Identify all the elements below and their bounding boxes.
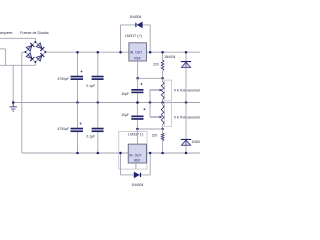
diode D8 1N4004 (negative output clamp) <box>181 139 191 140</box>
capacitor C2 0.1uF (positive side) <box>97 52 99 75</box>
wire positive rail <box>45 51 200 53</box>
wire protection loop bottom (LM337) <box>121 174 151 176</box>
wire bridge diamond <box>25 42 45 62</box>
wire ground rail <box>13 102 200 104</box>
node R1/pot junction (top ADJ) <box>161 77 164 80</box>
wire ADJ node to divider (top) <box>138 77 163 79</box>
svg-text:1N4004: 1N4004 <box>132 183 144 187</box>
wire ADJ node to divider (bottom) <box>137 128 162 130</box>
node C5 ground <box>136 101 139 104</box>
node bridge top vertex <box>34 41 36 43</box>
capacitor C3 4700uF (negative side) <box>77 103 79 128</box>
potentiometer RV2 body box <box>165 103 172 127</box>
polarity + of C3 <box>80 122 82 124</box>
svg-text:4700µF: 4700µF <box>57 127 69 131</box>
node C1 top <box>76 51 79 54</box>
svg-text:OUT: OUT <box>135 51 142 55</box>
wire 220 top lead <box>162 52 164 60</box>
svg-text:OUT: OUT <box>135 154 142 158</box>
diode bridge D1 (left-to-top arm) <box>26 43 35 52</box>
node C6 ground <box>136 101 139 104</box>
node C6 ADJ junction <box>136 128 139 131</box>
wire AC input lower from transformer <box>0 48 6 50</box>
wire 220-2 bottom lead <box>162 141 164 153</box>
wire D6 bottom lead <box>185 68 187 103</box>
diode D7 1N4004 across LM337 <box>134 172 140 179</box>
capacitor C6 10uF (bottom) <box>136 103 138 116</box>
wire pot2 top lead <box>162 103 164 105</box>
wire negative rail <box>22 152 200 154</box>
svg-text:220: 220 <box>153 62 159 66</box>
wire bridge negative vertex <box>22 51 26 53</box>
node bridge bottom vertex <box>34 61 36 63</box>
wire AC upper drop to bridge top <box>34 38 36 42</box>
node C2 ground <box>97 101 100 104</box>
diode bridge D2 (top-to-right arm) <box>36 43 45 52</box>
svg-text:220: 220 <box>152 133 158 137</box>
wire REF pin U1 down <box>137 61 139 78</box>
capacitor C4 0.1uF (negative side) <box>97 103 99 128</box>
node bridge right vertex <box>44 51 46 53</box>
wire wiper RV1 to ground <box>149 90 151 103</box>
node D8 on negative rail <box>185 152 188 155</box>
resistor R1 220 (top) <box>161 60 164 71</box>
wire pot bottom lead <box>162 100 164 103</box>
svg-text:1N4004: 1N4004 <box>192 140 200 144</box>
node C3 bottom <box>76 152 79 155</box>
ground symbol <box>12 101 15 104</box>
node pot2 bottom junction <box>161 128 164 131</box>
wire 220 bottom lead <box>162 71 164 79</box>
wiper arrow RV2 <box>150 116 160 118</box>
wire protection loop right (LM317) <box>149 25 151 52</box>
wire protection loop left (LM337) <box>120 153 122 175</box>
svg-text:5 K Potenciometro: 5 K Potenciometro <box>174 88 200 92</box>
svg-text:REF: REF <box>134 159 140 163</box>
node loop-left on positive rail <box>119 51 122 54</box>
resistor R2 220 (bottom) <box>161 133 164 141</box>
svg-text:REF: REF <box>134 57 140 61</box>
diode bridge D4 (bottom-to-right arm) <box>36 53 45 62</box>
node R1 top on positive rail <box>161 51 164 54</box>
wiper arrow RV1 <box>150 89 160 91</box>
svg-text:1N4004: 1N4004 <box>164 55 175 59</box>
svg-text:Fuente de Diodos: Fuente de Diodos <box>20 31 49 35</box>
svg-text:1N4004: 1N4004 <box>130 15 142 19</box>
svg-text:0.1µF: 0.1µF <box>86 84 95 88</box>
node D6 on positive rail <box>185 51 188 54</box>
wire pot2 bottom lead <box>162 125 164 129</box>
op-amp U2 LM337 box <box>128 144 146 163</box>
node wiper on ground rail <box>149 101 152 104</box>
op-amp U1 LM317 box <box>129 43 147 61</box>
wire center-tap drop to ground <box>12 65 14 102</box>
svg-text:5 K Potenciometro: 5 K Potenciometro <box>174 116 200 120</box>
wire AC lower run to bridge bottom <box>0 64 35 66</box>
polarity + of C5 <box>140 83 142 85</box>
diode bridge D3 (left-to-bottom arm) <box>26 53 35 62</box>
node loop-left on negative rail <box>119 152 122 155</box>
wire D8 bottom lead <box>185 145 187 153</box>
capacitor C1 4700uF (positive side) <box>77 52 79 75</box>
wire 220-2 top lead <box>162 129 164 133</box>
node C2 top <box>97 51 100 54</box>
potentiometer RV1 body box <box>165 80 172 101</box>
wire negative feed vertical <box>21 52 23 153</box>
node pot bottom on ground rail <box>161 101 164 104</box>
node loop-right on positive rail <box>149 51 152 54</box>
selection box around U2 <box>119 131 147 169</box>
svg-text:0.1µF: 0.1µF <box>86 134 95 138</box>
node D6 on ground rail <box>185 101 188 104</box>
svg-text:10µF: 10µF <box>121 92 129 96</box>
node REF junction (top) <box>136 77 139 80</box>
node R2 bottom on negative rail <box>161 152 164 155</box>
wire protection loop left (LM317) <box>120 25 122 52</box>
svg-text:Ampere: Ampere <box>0 30 13 35</box>
node C1 ground <box>76 101 79 104</box>
node C4 bottom <box>97 152 100 155</box>
potentiometer RV2 5K element <box>161 105 164 126</box>
capacitor C5 10uF (top) <box>137 78 139 89</box>
wire protection loop right (LM337) <box>149 153 151 175</box>
node bridge left vertex <box>24 51 26 53</box>
wire AC lower drop <box>5 49 7 65</box>
wire REF stub below U2 <box>135 163 137 169</box>
wire D6 top lead <box>185 52 187 61</box>
wire D8 top lead <box>185 103 187 140</box>
node loop-right on negative rail <box>149 152 152 155</box>
potentiometer RV1 5K element <box>161 81 164 99</box>
svg-text:LM317 (+): LM317 (+) <box>125 34 142 38</box>
wire bridge bottom stub <box>34 62 36 66</box>
diode D5 1N4004 across LM317 <box>135 23 136 27</box>
wire wiper RV2 to ground <box>149 103 151 118</box>
polarity + of C6 <box>143 108 145 110</box>
svg-text:10µF: 10µF <box>121 113 129 117</box>
wire protection loop top (LM317) <box>121 24 151 26</box>
diode D6 1N4004 (positive output clamp) <box>181 61 191 62</box>
polarity + of C1 <box>80 70 82 72</box>
wire pot top lead <box>162 78 164 81</box>
wire REF pin U2 up <box>136 129 138 144</box>
svg-text:LM337 (-): LM337 (-) <box>128 132 143 136</box>
svg-text:4700µF: 4700µF <box>57 77 69 81</box>
wire AC input upper from transformer <box>0 37 35 39</box>
